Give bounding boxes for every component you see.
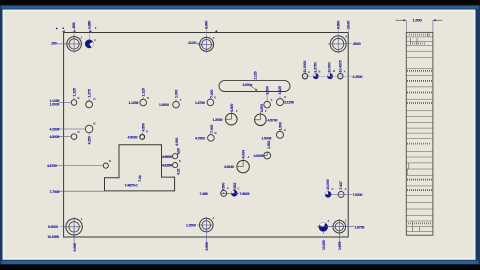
svg-text:7.486: 7.486 — [200, 192, 208, 196]
svg-text:7.4875-C: 7.4875-C — [125, 183, 139, 187]
svg-text:H: H — [284, 95, 286, 99]
svg-text:7.7500: 7.7500 — [50, 190, 60, 194]
svg-text:D: D — [78, 130, 80, 134]
svg-text:4.0000: 4.0000 — [254, 154, 264, 158]
svg-text:1.2500: 1.2500 — [213, 118, 223, 122]
svg-text:4.5000: 4.5000 — [50, 135, 60, 139]
svg-text:C: C — [179, 150, 181, 154]
svg-text:1.250: 1.250 — [87, 21, 91, 29]
svg-text:11.0000: 11.0000 — [303, 61, 307, 73]
svg-text:4.500: 4.500 — [230, 104, 234, 112]
svg-text:1.500: 1.500 — [413, 18, 423, 23]
svg-text:F: F — [236, 109, 238, 113]
svg-text:D: D — [146, 129, 148, 133]
svg-text:10.000: 10.000 — [326, 179, 330, 189]
svg-text:4.000: 4.000 — [175, 138, 179, 146]
svg-text:4.2500: 4.2500 — [50, 127, 60, 131]
svg-text:7.0000: 7.0000 — [353, 193, 363, 197]
svg-text:4.250: 4.250 — [88, 136, 92, 144]
svg-text:A: A — [344, 70, 346, 74]
svg-text:1.562: 1.562 — [267, 141, 271, 149]
svg-text:A: A — [248, 155, 250, 159]
svg-text:D: D — [94, 97, 96, 101]
svg-text:1.8750: 1.8750 — [355, 225, 365, 229]
svg-text:9.000: 9.000 — [205, 242, 209, 250]
svg-text:1.125: 1.125 — [73, 88, 77, 96]
svg-text:F: F — [213, 36, 215, 40]
svg-text:9.500: 9.500 — [336, 21, 340, 29]
svg-text:1.875: 1.875 — [338, 242, 342, 250]
svg-text:H: H — [284, 128, 286, 132]
svg-text:1.500: 1.500 — [266, 86, 270, 94]
svg-text:7.562: 7.562 — [233, 183, 237, 191]
svg-text:3.1250: 3.1250 — [284, 101, 294, 105]
svg-text:2.2500: 2.2500 — [353, 75, 363, 79]
svg-text:1.000: 1.000 — [175, 90, 179, 98]
svg-text:B: B — [333, 69, 335, 73]
svg-text:7.437: 7.437 — [339, 181, 343, 189]
svg-text:A: A — [328, 219, 330, 223]
svg-text:A: A — [94, 38, 96, 42]
svg-text:B: B — [319, 70, 321, 74]
svg-text:4.500: 4.500 — [260, 104, 264, 112]
svg-text:D: D — [147, 96, 149, 100]
svg-text:1.1250: 1.1250 — [129, 101, 139, 105]
svg-text:.3125: .3125 — [188, 41, 196, 45]
svg-text:4.0000: 4.0000 — [162, 155, 172, 159]
svg-text:3.125: 3.125 — [278, 86, 282, 94]
svg-text:1.500: 1.500 — [279, 122, 283, 130]
svg-text:3.000x: 3.000x — [243, 83, 253, 87]
svg-text:C: C — [238, 187, 240, 191]
svg-text:7.5625: 7.5625 — [240, 192, 250, 196]
svg-text:B: B — [94, 122, 96, 126]
svg-text:7.000: 7.000 — [210, 125, 214, 133]
svg-text:4.7500: 4.7500 — [195, 137, 205, 141]
svg-text:1.125: 1.125 — [142, 88, 146, 96]
svg-text:10.00: 10.00 — [347, 21, 351, 29]
svg-text:D: D — [215, 131, 217, 135]
svg-text:.5000: .5000 — [353, 42, 361, 46]
svg-text:4.8750: 4.8750 — [47, 164, 57, 168]
svg-text:9.000: 9.000 — [73, 243, 77, 251]
svg-text:4.634: 4.634 — [242, 150, 246, 158]
svg-text:1.3750: 1.3750 — [313, 62, 317, 72]
svg-text:7.500: 7.500 — [222, 183, 226, 191]
svg-text:10.250: 10.250 — [322, 240, 326, 250]
svg-text:10.4375: 10.4375 — [339, 60, 343, 72]
svg-text:C: C — [332, 187, 334, 191]
svg-text:1.3750: 1.3750 — [195, 101, 205, 105]
svg-text:F: F — [271, 98, 273, 102]
svg-text:1.125: 1.125 — [254, 71, 258, 79]
svg-text:A: A — [345, 187, 347, 191]
svg-text:4.5700: 4.5700 — [268, 118, 278, 122]
svg-text:4.5000: 4.5000 — [128, 136, 138, 140]
svg-text:1.2500: 1.2500 — [186, 224, 196, 228]
svg-text:10.500: 10.500 — [327, 62, 331, 72]
svg-text:1.0000: 1.0000 — [50, 102, 60, 106]
svg-text:B: B — [109, 159, 111, 163]
svg-text:4.12: 4.12 — [177, 168, 181, 175]
svg-text:10.0000: 10.0000 — [48, 235, 60, 239]
svg-text:4.1250: 4.1250 — [162, 164, 172, 168]
svg-text:A: A — [308, 70, 310, 74]
svg-text:4.6340: 4.6340 — [224, 165, 234, 169]
svg-text:9.0000: 9.0000 — [48, 225, 58, 229]
svg-text:.500: .500 — [72, 22, 76, 29]
svg-text:.250: .250 — [51, 42, 57, 46]
svg-text:F: F — [180, 98, 182, 102]
svg-text:D: D — [179, 159, 181, 163]
svg-text:2.000: 2.000 — [204, 21, 208, 29]
svg-text:1.0000: 1.0000 — [159, 103, 169, 107]
svg-text:D: D — [214, 96, 216, 100]
svg-text:B: B — [78, 96, 80, 100]
svg-text:1.375: 1.375 — [88, 89, 92, 97]
svg-text:F: F — [265, 109, 267, 113]
svg-text:1.5000: 1.5000 — [262, 136, 272, 140]
svg-text:A: A — [227, 186, 229, 190]
svg-text:K: K — [346, 35, 348, 39]
